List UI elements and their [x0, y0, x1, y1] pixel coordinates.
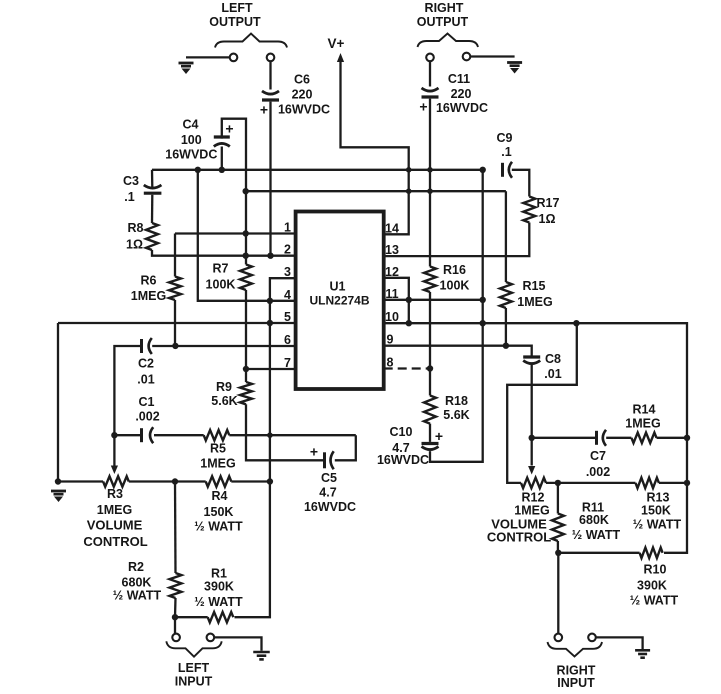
wire: [114, 434, 140, 436]
wiper arrow R12: [528, 466, 535, 475]
svg-text:.002: .002: [586, 465, 610, 479]
wire: [174, 617, 176, 633]
svg-text:1Ω: 1Ω: [126, 238, 143, 252]
svg-text:1MEG: 1MEG: [97, 503, 132, 517]
junction: [219, 167, 225, 173]
svg-text:1MEG: 1MEG: [200, 457, 235, 471]
wire rail: [246, 190, 506, 192]
svg-text:.002: .002: [135, 409, 159, 423]
svg-text:100K: 100K: [206, 277, 236, 291]
wire pin 4: [198, 170, 296, 301]
svg-text:C9: C9: [497, 131, 513, 145]
resistor R13: [633, 478, 682, 532]
wire pin 5 stub: [270, 322, 296, 324]
ground: [507, 63, 522, 74]
svg-text:R7: R7: [213, 262, 229, 276]
svg-text:R6: R6: [141, 274, 157, 288]
op-amp U1 ULN2274B: [296, 212, 384, 390]
svg-text:14: 14: [385, 221, 399, 235]
svg-text:V+: V+: [328, 36, 345, 51]
junction: [243, 230, 249, 236]
svg-text:4: 4: [284, 288, 291, 302]
resistor R8: [126, 221, 158, 252]
svg-text:C1: C1: [139, 395, 155, 409]
svg-text:1Ω: 1Ω: [539, 212, 556, 226]
svg-text:R17: R17: [537, 196, 560, 210]
junction: [172, 614, 178, 620]
wire: [606, 437, 631, 439]
svg-text:C5: C5: [321, 471, 337, 485]
junction: [172, 478, 178, 484]
svg-text:100: 100: [181, 133, 202, 147]
wire pin 2: [152, 250, 296, 256]
wire: [429, 61, 431, 86]
wire: [512, 170, 530, 197]
wire: [58, 480, 103, 482]
resistor R17: [523, 196, 559, 226]
svg-text:VOLUME: VOLUME: [87, 518, 143, 533]
junction: [406, 320, 412, 326]
svg-text:R18: R18: [445, 394, 468, 408]
junction: [427, 365, 433, 371]
resistor R11: [552, 501, 621, 543]
resistor R1: [194, 566, 243, 622]
svg-text:+: +: [260, 102, 268, 118]
svg-text:OUTPUT: OUTPUT: [417, 15, 469, 29]
resistor R10: [630, 548, 679, 608]
node RIGHT OUTPUT: [417, 1, 469, 29]
capacitor C4: [165, 118, 233, 162]
svg-text:½ WATT: ½ WATT: [630, 594, 679, 608]
capacitor C3: [123, 174, 161, 204]
node LEFT OUTPUT: [209, 1, 261, 29]
resistor R14: [625, 403, 660, 444]
svg-text:R3: R3: [107, 487, 123, 501]
wire: [531, 365, 533, 466]
svg-text:7: 7: [284, 356, 291, 370]
node V+: [328, 36, 345, 62]
ground: [253, 652, 270, 659]
capacitor C7: [586, 430, 610, 479]
wire: [154, 434, 204, 436]
svg-text:½ WATT: ½ WATT: [194, 520, 243, 534]
svg-text:C8: C8: [545, 352, 561, 366]
wire: [659, 482, 687, 484]
resistor R5: [200, 430, 235, 471]
terminal right input: [555, 634, 563, 642]
svg-text:C6: C6: [294, 73, 310, 87]
svg-text:16WVDC: 16WVDC: [165, 147, 217, 161]
svg-text:16WVDC: 16WVDC: [436, 101, 488, 115]
wire V+ to pin 14: [341, 60, 409, 234]
resistor R16: [424, 263, 469, 293]
wire pin 7: [246, 368, 296, 370]
junction: [684, 435, 690, 441]
capacitor C1: [135, 395, 159, 443]
junction: [267, 298, 273, 304]
wire: [269, 61, 271, 89]
junction: [503, 343, 509, 349]
svg-text:150K: 150K: [641, 504, 671, 518]
wire: [221, 147, 223, 170]
wire: [231, 480, 270, 482]
junction: [684, 480, 690, 486]
capacitor C10: [377, 425, 443, 467]
wire: [174, 234, 176, 277]
wire: [174, 598, 177, 617]
svg-text:R15: R15: [523, 279, 546, 293]
svg-text:OUTPUT: OUTPUT: [209, 15, 261, 29]
wire: [186, 56, 230, 58]
capacitor C6: [260, 73, 330, 118]
junction: [555, 480, 561, 486]
resistor R6: [131, 274, 181, 304]
wire: [174, 300, 176, 346]
wire: [151, 170, 154, 188]
label volume control left: [83, 518, 147, 550]
svg-text:½ WATT: ½ WATT: [194, 595, 243, 609]
junction: [529, 435, 535, 441]
wire: [222, 119, 246, 265]
svg-text:2: 2: [284, 243, 291, 257]
wire: [114, 346, 140, 466]
wire: [546, 482, 636, 484]
wire: [532, 437, 595, 439]
wire: [557, 483, 559, 514]
wire V+ bus: [152, 169, 483, 171]
wire pin 6: [152, 345, 295, 347]
junction: [195, 167, 201, 173]
wire: [269, 102, 271, 256]
ground: [51, 491, 66, 502]
svg-text:½ WATT: ½ WATT: [572, 528, 621, 542]
svg-text:13: 13: [385, 243, 399, 257]
node RIGHT INPUT: [557, 664, 596, 691]
wire: [505, 191, 507, 282]
resistor R4: [194, 476, 243, 533]
svg-text:+: +: [310, 443, 318, 459]
junction: [406, 188, 412, 194]
wire: [214, 637, 261, 650]
svg-text:1MEG: 1MEG: [625, 417, 660, 431]
svg-text:4.7: 4.7: [319, 485, 336, 499]
wire: [596, 637, 643, 649]
wire: [429, 99, 431, 267]
svg-text:LEFT: LEFT: [221, 1, 253, 15]
svg-text:390K: 390K: [204, 580, 234, 594]
junction: [111, 432, 117, 438]
junction: [406, 167, 412, 173]
capacitor C5: [304, 443, 356, 514]
svg-text:1: 1: [284, 221, 291, 235]
label volume control right: [487, 517, 551, 545]
svg-text:16WVDC: 16WVDC: [377, 453, 429, 467]
wire: [174, 482, 177, 574]
junction: [55, 478, 61, 484]
resistor R18: [424, 394, 470, 424]
junction: [267, 320, 273, 326]
svg-text:CONTROL: CONTROL: [487, 530, 551, 545]
junction: [427, 188, 433, 194]
wire pin 10 bus: [384, 323, 687, 553]
svg-text:C10: C10: [390, 425, 413, 439]
brace right output: [418, 34, 479, 48]
wire: [175, 616, 208, 618]
svg-text:R10: R10: [644, 563, 667, 577]
svg-text:220: 220: [292, 88, 313, 102]
resistor R12: [514, 478, 549, 518]
junction: [480, 297, 486, 303]
junction: [267, 432, 273, 438]
wire: [429, 369, 431, 396]
svg-text:5.6K: 5.6K: [211, 394, 237, 408]
svg-text:220: 220: [451, 87, 472, 101]
capacitor C9: [497, 131, 513, 178]
terminal left output hot: [230, 54, 238, 62]
junction: [243, 188, 249, 194]
junction: [172, 343, 178, 349]
svg-text:.01: .01: [544, 367, 561, 381]
svg-text:½ WATT: ½ WATT: [113, 589, 162, 603]
svg-text:3: 3: [284, 265, 291, 279]
wiper arrow R3: [111, 466, 118, 475]
svg-text:INPUT: INPUT: [557, 676, 595, 690]
svg-text:+: +: [419, 99, 427, 115]
svg-text:C3: C3: [123, 174, 139, 188]
terminal left input gnd: [207, 634, 215, 642]
ground: [179, 63, 194, 74]
svg-text:ULN2274B: ULN2274B: [309, 294, 369, 308]
svg-text:16WVDC: 16WVDC: [278, 103, 330, 117]
wire: [657, 437, 688, 439]
wire pin 8: [384, 367, 430, 369]
svg-text:R4: R4: [212, 489, 228, 503]
svg-text:R14: R14: [633, 403, 656, 417]
wire: [470, 55, 514, 57]
svg-text:390K: 390K: [637, 579, 667, 593]
svg-text:INPUT: INPUT: [175, 675, 213, 689]
wire: [557, 541, 559, 553]
wire pin 3 chain: [235, 278, 296, 617]
wire: [57, 323, 59, 482]
brace right input: [548, 642, 603, 657]
wire pin 11: [384, 299, 483, 301]
junction: [406, 297, 412, 303]
resistor R15: [500, 279, 553, 309]
svg-text:1MEG: 1MEG: [514, 504, 549, 518]
svg-text:C11: C11: [448, 72, 470, 86]
wire: [335, 435, 356, 460]
capacitor C8: [523, 352, 562, 381]
svg-text:+: +: [225, 121, 233, 137]
junction: [243, 366, 249, 372]
svg-text:U1: U1: [330, 280, 346, 294]
svg-text:R13: R13: [647, 491, 670, 505]
junction: [267, 253, 273, 259]
svg-text:5.6K: 5.6K: [443, 408, 469, 422]
junction: [427, 167, 433, 173]
wire: [505, 308, 507, 346]
svg-text:R16: R16: [443, 263, 466, 277]
svg-text:C7: C7: [590, 449, 606, 463]
svg-text:5: 5: [284, 310, 291, 324]
resistor R7: [206, 262, 252, 292]
svg-text:R5: R5: [210, 442, 226, 456]
svg-text:680K: 680K: [122, 576, 152, 590]
junction: [480, 320, 486, 326]
brace left output: [215, 34, 287, 48]
resistor R9: [211, 380, 252, 408]
node LEFT INPUT: [175, 661, 213, 689]
svg-text:½ WATT: ½ WATT: [633, 518, 682, 532]
svg-text:R1: R1: [211, 566, 227, 580]
svg-text:.1: .1: [124, 190, 134, 204]
svg-text:1MEG: 1MEG: [517, 295, 552, 309]
svg-text:R2: R2: [128, 560, 144, 574]
resistor R2: [113, 560, 182, 603]
wire: [558, 552, 639, 554]
wire to R12: [507, 323, 577, 483]
resistor R3: [97, 476, 132, 517]
svg-text:16WVDC: 16WVDC: [304, 500, 356, 514]
wire: [129, 480, 206, 482]
wire: [151, 195, 154, 223]
wire: [246, 404, 323, 460]
terminal right input gnd: [588, 634, 596, 642]
svg-text:.01: .01: [137, 373, 154, 387]
junction: [573, 320, 579, 326]
svg-text:.1: .1: [501, 145, 511, 159]
svg-text:R9: R9: [216, 380, 232, 394]
brace left input: [166, 641, 221, 656]
svg-text:R12: R12: [522, 491, 545, 505]
svg-text:C2: C2: [138, 356, 154, 370]
wire: [429, 292, 431, 369]
svg-text:680K: 680K: [579, 513, 609, 527]
svg-text:RIGHT: RIGHT: [425, 1, 464, 15]
wire: [245, 290, 247, 382]
terminal left output: [267, 54, 275, 62]
svg-text:LEFT: LEFT: [178, 661, 210, 675]
wire pin 1: [175, 232, 296, 234]
svg-text:150K: 150K: [204, 505, 234, 519]
wire pin 9: [384, 346, 532, 356]
wire pin 12 jumper: [384, 278, 409, 323]
junction: [480, 167, 486, 173]
wire: [429, 424, 431, 442]
svg-text:100K: 100K: [440, 279, 470, 293]
wire: [557, 553, 559, 634]
capacitor C11: [419, 72, 488, 115]
junction: [267, 478, 273, 484]
wire pin 5: [58, 322, 270, 324]
terminal left input: [172, 634, 180, 642]
svg-text:C4: C4: [183, 118, 199, 132]
capacitor C2: [137, 338, 154, 387]
wire R5 to C5: [229, 434, 355, 436]
wire pin 13: [384, 223, 530, 257]
svg-text:6: 6: [284, 333, 291, 347]
svg-text:R8: R8: [128, 221, 144, 235]
terminal right output: [426, 54, 434, 62]
wire C10 return: [430, 170, 483, 462]
junction: [555, 550, 561, 556]
junction: [243, 253, 249, 259]
svg-text:1MEG: 1MEG: [131, 289, 166, 303]
svg-text:+: +: [435, 428, 443, 444]
ground: [635, 650, 650, 657]
terminal right output hot: [463, 53, 471, 61]
svg-text:CONTROL: CONTROL: [83, 534, 147, 549]
